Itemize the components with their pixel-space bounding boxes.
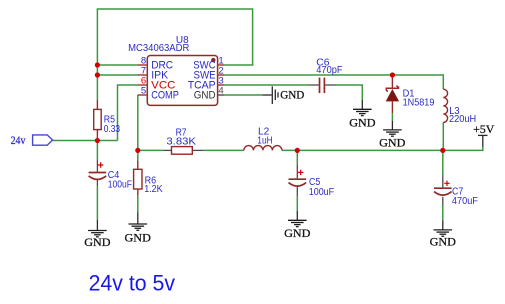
- svg-text:GND: GND: [379, 136, 406, 150]
- svg-text:470uF: 470uF: [452, 196, 478, 207]
- svg-text:5: 5: [141, 85, 146, 96]
- svg-text:GND: GND: [84, 235, 111, 249]
- svg-text:4: 4: [218, 85, 224, 96]
- svg-text:470pF: 470pF: [316, 65, 342, 76]
- svg-text:COMP: COMP: [151, 89, 179, 101]
- svg-text:GND: GND: [194, 89, 216, 101]
- svg-text:100uF: 100uF: [108, 179, 132, 190]
- svg-text:GND: GND: [430, 235, 457, 249]
- svg-text:1uH: 1uH: [257, 136, 272, 147]
- svg-text:3.83K: 3.83K: [166, 136, 196, 147]
- svg-text:1.2K: 1.2K: [144, 184, 163, 195]
- svg-text:GND: GND: [125, 230, 152, 244]
- svg-text:0.33: 0.33: [104, 124, 121, 135]
- svg-text:+5V: +5V: [473, 122, 495, 136]
- svg-text:1N5819: 1N5819: [403, 98, 435, 109]
- svg-text:GND: GND: [284, 226, 311, 240]
- svg-text:24v to 5v: 24v to 5v: [89, 271, 175, 296]
- svg-text:GND: GND: [349, 115, 376, 129]
- svg-text:24v: 24v: [11, 133, 26, 147]
- svg-text:MC34063ADR: MC34063ADR: [128, 43, 189, 54]
- svg-text:GND: GND: [280, 88, 304, 102]
- svg-text:100uF: 100uF: [309, 187, 334, 198]
